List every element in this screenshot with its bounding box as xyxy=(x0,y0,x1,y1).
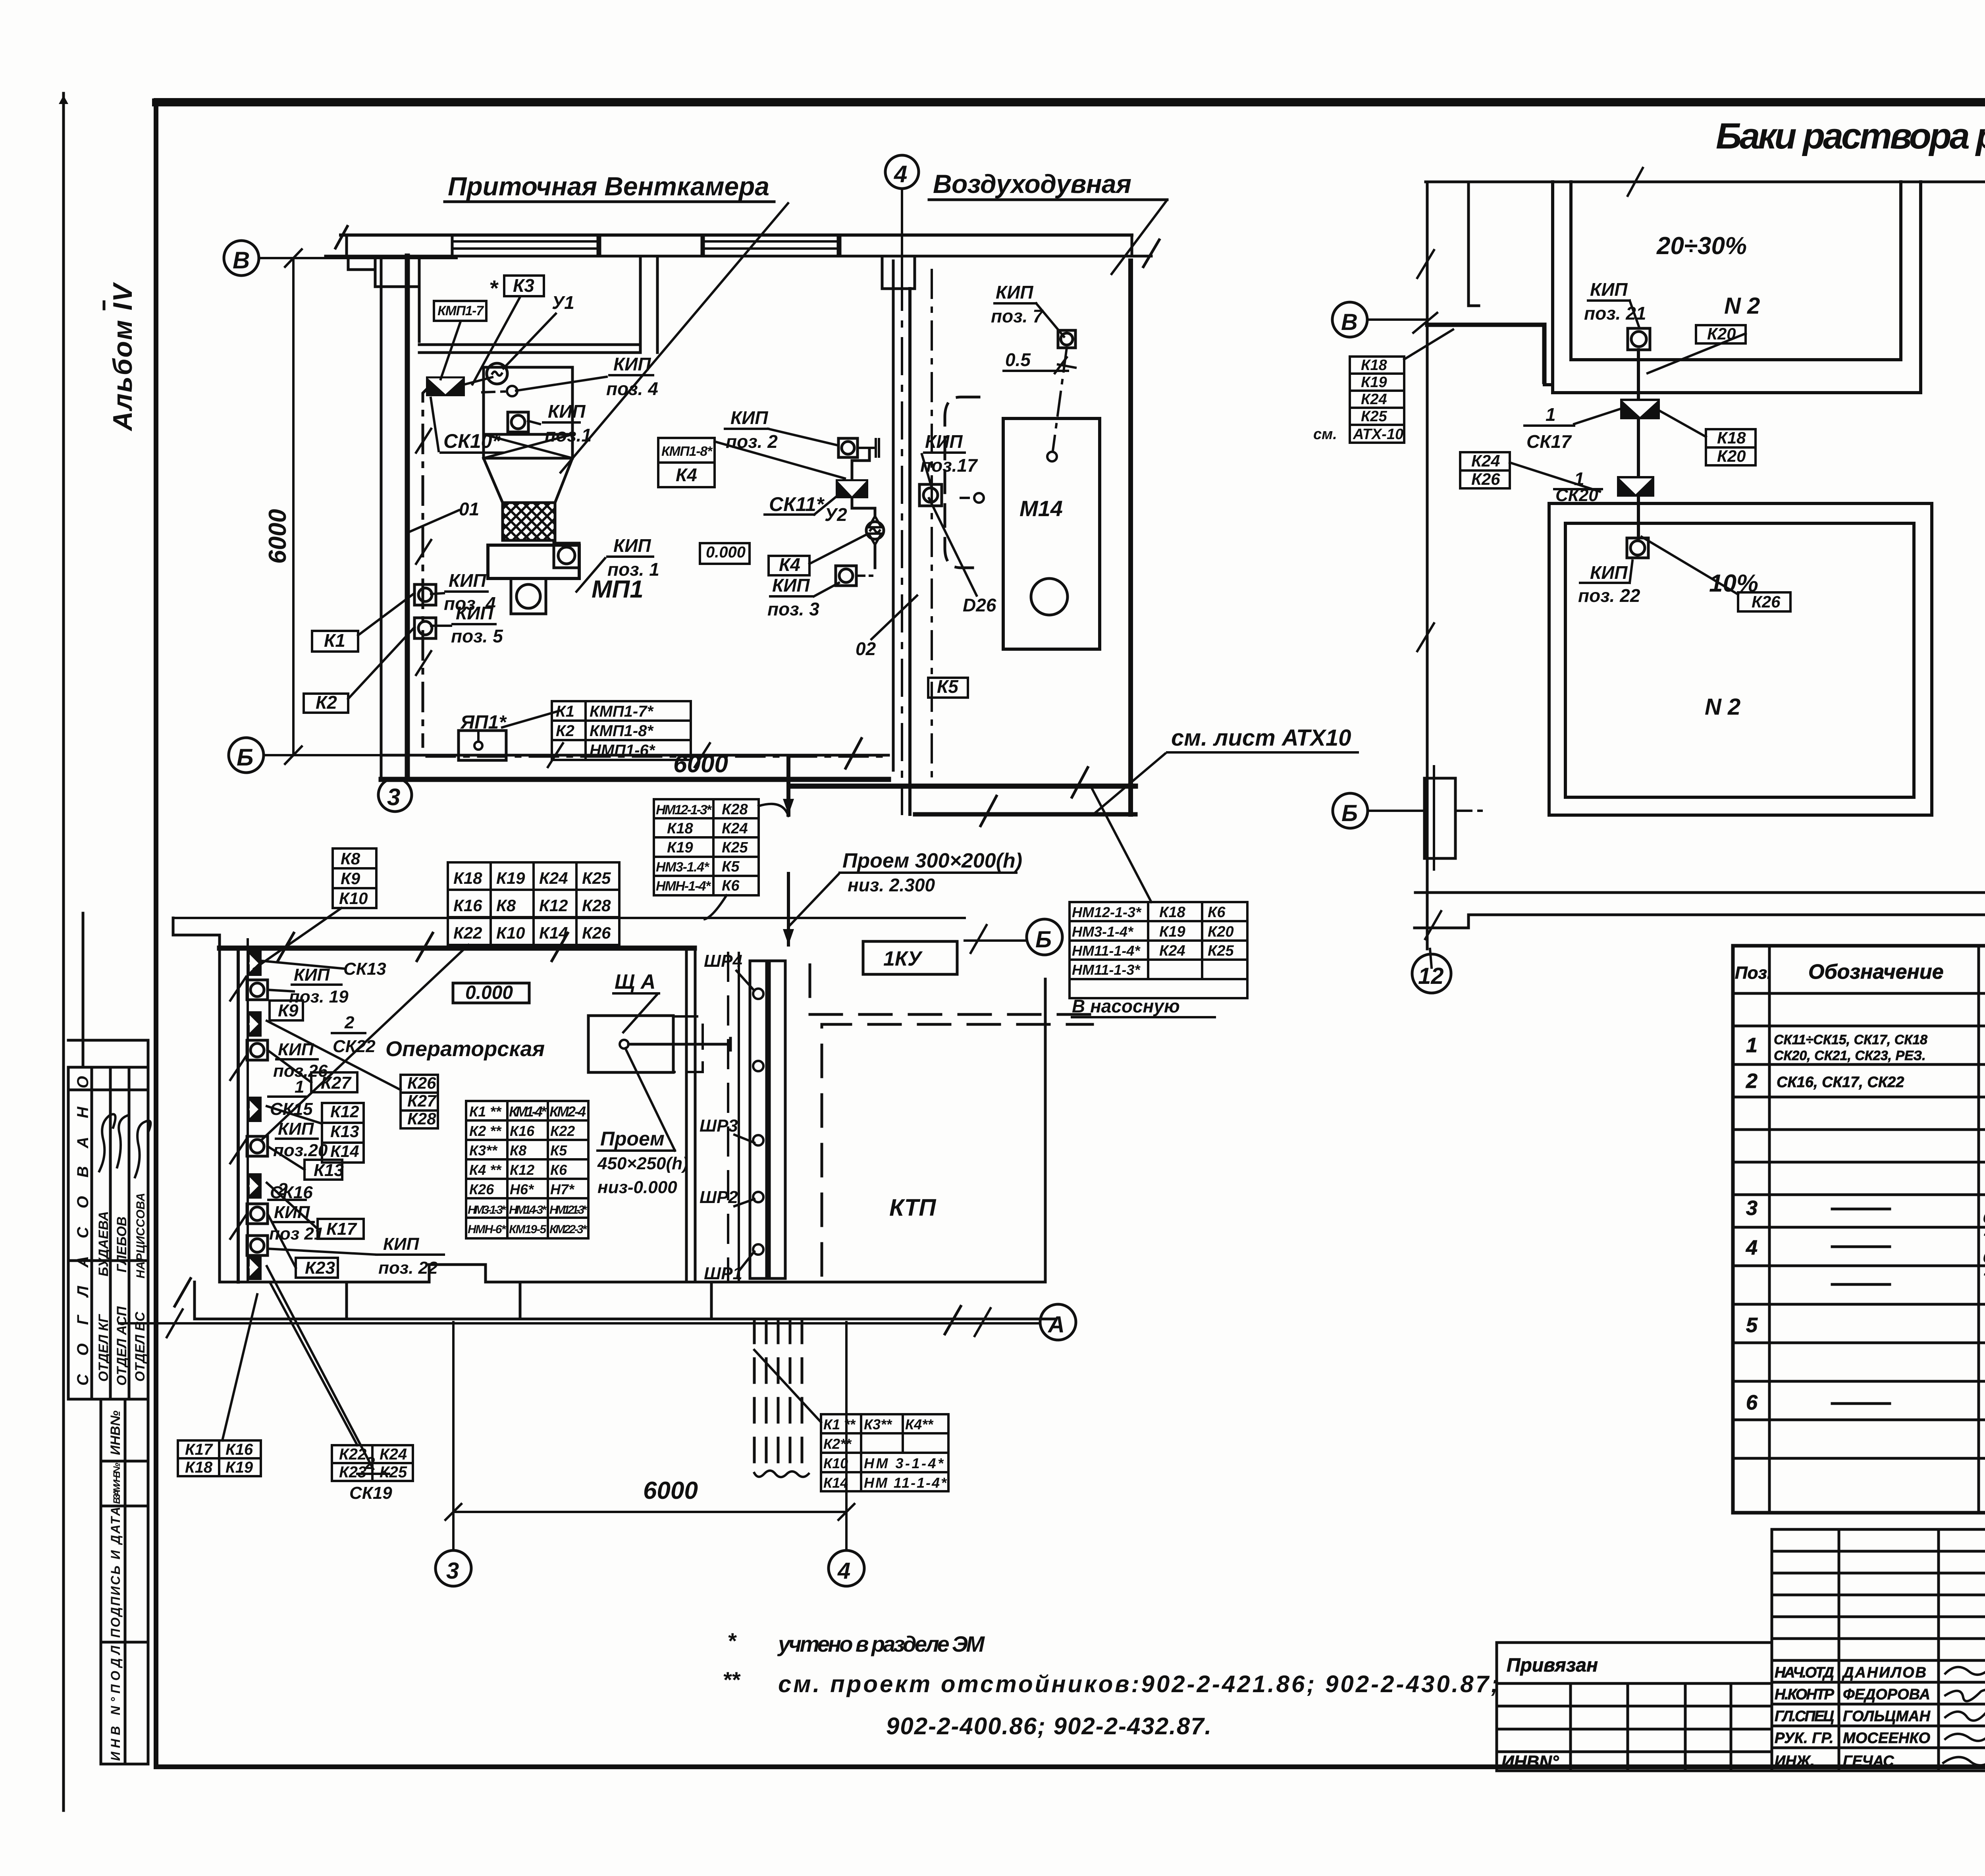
svg-text:М14: М14 xyxy=(1019,496,1063,521)
svg-text:поз. 2: поз. 2 xyxy=(726,431,778,452)
svg-text:ГЛЕБОВ: ГЛЕБОВ xyxy=(114,1217,129,1273)
svg-text:Баки раствора реагента: Баки раствора реагента xyxy=(1716,116,1985,156)
svg-text:6000: 6000 xyxy=(643,1477,698,1504)
svg-text:СК10*: СК10* xyxy=(443,430,501,452)
svg-text:0.000: 0.000 xyxy=(465,982,513,1003)
svg-text:К2: К2 xyxy=(556,722,574,740)
svg-text:К4**: К4** xyxy=(905,1416,934,1433)
svg-text:поз. 5: поз. 5 xyxy=(451,626,503,646)
svg-text:У1: У1 xyxy=(552,292,574,313)
svg-text:К24: К24 xyxy=(380,1446,407,1463)
svg-text:Щ А: Щ А xyxy=(615,970,655,993)
svg-text:КИП: КИП xyxy=(548,401,586,422)
svg-text:К19: К19 xyxy=(496,869,525,887)
svg-text:ИНВ N°ПОДЛ: ИНВ N°ПОДЛ xyxy=(108,1645,123,1761)
svg-text:К4: К4 xyxy=(779,554,800,575)
svg-text:ОТДЕЛ КГ: ОТДЕЛ КГ xyxy=(96,1313,111,1382)
svg-text:К2**: К2** xyxy=(823,1436,852,1452)
svg-text:К8: К8 xyxy=(510,1142,526,1159)
svg-text:К8: К8 xyxy=(496,896,516,915)
svg-text:поз. 1: поз. 1 xyxy=(607,559,659,580)
svg-text:3: 3 xyxy=(1746,1197,1758,1220)
svg-text:поз.17: поз.17 xyxy=(920,455,978,476)
svg-text:КИП: КИП xyxy=(613,354,651,374)
svg-text:ФЕДОРОВА: ФЕДОРОВА xyxy=(1843,1686,1930,1703)
svg-text:ГЛ.СПЕЦ: ГЛ.СПЕЦ xyxy=(1775,1708,1834,1725)
svg-text:НМ3-1.4*: НМ3-1.4* xyxy=(656,860,710,875)
svg-text:К9: К9 xyxy=(341,869,360,888)
svg-text:К6: К6 xyxy=(550,1162,567,1178)
svg-text:низ-0.000: низ-0.000 xyxy=(597,1178,677,1197)
svg-text:1КУ: 1КУ xyxy=(883,947,923,970)
svg-text:СК19: СК19 xyxy=(349,1483,392,1503)
svg-text:902-2-400.86; 902-2-432.87.: 902-2-400.86; 902-2-432.87. xyxy=(886,1713,1212,1739)
svg-text:К12: К12 xyxy=(330,1102,359,1121)
svg-text:К18: К18 xyxy=(1159,904,1185,921)
svg-text:ДАНИЛОВ: ДАНИЛОВ xyxy=(1842,1664,1926,1681)
svg-text:низ. 2.300: низ. 2.300 xyxy=(848,875,935,895)
svg-text:К25: К25 xyxy=(722,839,748,856)
svg-text:НМН-1-4*: НМН-1-4* xyxy=(656,879,711,894)
svg-text:К20: К20 xyxy=(1208,924,1234,940)
svg-text:Б: Б xyxy=(1035,927,1052,952)
svg-text:К18: К18 xyxy=(1717,428,1746,447)
svg-text:4: 4 xyxy=(894,161,907,187)
svg-text:450×250(h): 450×250(h) xyxy=(597,1154,688,1173)
svg-text:К3**: К3** xyxy=(864,1416,892,1433)
svg-text:2: 2 xyxy=(1746,1070,1758,1093)
svg-text:ИНВN°: ИНВN° xyxy=(1501,1752,1559,1772)
svg-text:*: * xyxy=(727,1628,737,1653)
svg-text:СК20, СК21, СК23, РЕЗ.: СК20, СК21, СК23, РЕЗ. xyxy=(1774,1048,1926,1063)
svg-text:К10: К10 xyxy=(823,1455,848,1471)
svg-text:К2: К2 xyxy=(316,692,337,713)
svg-text:ШР2: ШР2 xyxy=(700,1188,738,1207)
svg-text:К18: К18 xyxy=(1361,357,1387,374)
svg-text:БУДАЕВА: БУДАЕВА xyxy=(96,1211,111,1276)
svg-text:В насосную: В насосную xyxy=(1072,996,1180,1016)
svg-text:К24: К24 xyxy=(1471,451,1500,470)
svg-text:НМ 3-1-4*: НМ 3-1-4* xyxy=(864,1455,944,1471)
svg-text:поз. 7: поз. 7 xyxy=(991,306,1044,326)
svg-text:К28: К28 xyxy=(582,896,611,915)
svg-text:К25: К25 xyxy=(1208,943,1234,959)
svg-text:К9: К9 xyxy=(278,1001,299,1020)
svg-text:К5: К5 xyxy=(550,1142,567,1159)
svg-text:К25: К25 xyxy=(1361,408,1387,425)
svg-text:бесшовная: бесшовная xyxy=(1983,1249,1985,1266)
svg-text:КТП: КТП xyxy=(889,1194,937,1221)
svg-text:см.: см. xyxy=(1313,426,1337,443)
svg-text:К26: К26 xyxy=(1471,470,1500,488)
svg-text:К25: К25 xyxy=(582,869,611,887)
svg-text:К12: К12 xyxy=(539,896,568,915)
svg-text:КИП: КИП xyxy=(449,570,486,591)
svg-text:НМ14-3*: НМ14-3* xyxy=(509,1203,547,1217)
svg-text:1: 1 xyxy=(295,1077,304,1097)
svg-text:КИП: КИП xyxy=(1590,562,1628,583)
svg-text:КМ22-3*: КМ22-3* xyxy=(549,1223,587,1236)
svg-text:ШР1: ШР1 xyxy=(704,1264,742,1283)
svg-text:Б: Б xyxy=(1341,800,1358,826)
svg-text:К6: К6 xyxy=(722,877,740,894)
svg-text:К1: К1 xyxy=(556,703,574,720)
svg-text:К24: К24 xyxy=(722,820,748,837)
svg-text:Труба: Труба xyxy=(1983,1191,1985,1209)
svg-text:КМП1-7: КМП1-7 xyxy=(437,303,484,318)
svg-text:**: ** xyxy=(723,1667,741,1692)
svg-text:поз.1: поз.1 xyxy=(545,425,592,445)
svg-text:КМП1-8*: КМП1-8* xyxy=(661,444,713,459)
svg-text:4: 4 xyxy=(837,1558,850,1584)
svg-text:К4: К4 xyxy=(676,465,697,485)
svg-text:К2 **: К2 ** xyxy=(469,1123,502,1139)
svg-text:КИП: КИП xyxy=(1590,279,1628,300)
svg-text:N 2: N 2 xyxy=(1724,293,1760,319)
svg-text:12: 12 xyxy=(1418,963,1444,989)
svg-text:К18: К18 xyxy=(667,820,693,837)
svg-text:ГОЛЬЦМАН: ГОЛЬЦМАН xyxy=(1843,1708,1931,1725)
svg-text:К16: К16 xyxy=(225,1441,253,1458)
svg-text:К3: К3 xyxy=(513,275,534,296)
svg-text:МП1: МП1 xyxy=(592,576,644,603)
svg-text:Операторская: Операторская xyxy=(385,1037,545,1061)
svg-text:КМ19-5: КМ19-5 xyxy=(509,1223,547,1236)
svg-text:ШР3: ШР3 xyxy=(700,1116,738,1136)
svg-text:К26: К26 xyxy=(582,924,611,942)
svg-text:К26: К26 xyxy=(469,1181,494,1197)
svg-text:КИП: КИП xyxy=(383,1234,420,1254)
svg-text:К19: К19 xyxy=(1361,374,1387,391)
svg-text:КИП: КИП xyxy=(278,1119,314,1139)
svg-text:N 2: N 2 xyxy=(1705,694,1740,720)
svg-text:КИП: КИП xyxy=(613,535,651,556)
svg-text:поз. 3: поз. 3 xyxy=(767,599,819,619)
svg-text:ГЕЧАС: ГЕЧАС xyxy=(1843,1753,1894,1770)
svg-text:02: 02 xyxy=(856,638,876,659)
svg-text:АТХ-10: АТХ-10 xyxy=(1353,426,1403,443)
svg-text:Воздуходувная: Воздуходувная xyxy=(933,169,1131,199)
svg-text:К24: К24 xyxy=(539,869,568,887)
svg-text:К6: К6 xyxy=(1208,904,1226,921)
svg-text:К14: К14 xyxy=(539,924,568,942)
svg-text:К12: К12 xyxy=(510,1162,534,1178)
svg-text:К1: К1 xyxy=(324,630,345,651)
svg-text:К5: К5 xyxy=(937,676,959,697)
svg-text:бесшовная СТ3 ГОСТ8733-74 В20: бесшовная СТ3 ГОСТ8733-74 В20 М xyxy=(1983,1210,1985,1226)
svg-text:НМ3-1-4*: НМ3-1-4* xyxy=(1072,924,1134,940)
svg-text:ИНВ№: ИНВ№ xyxy=(108,1410,123,1455)
svg-text:К25: К25 xyxy=(380,1463,407,1481)
svg-text:Н.КОНТР: Н.КОНТР xyxy=(1775,1686,1835,1703)
svg-text:В: В xyxy=(1341,309,1358,335)
svg-text:К14: К14 xyxy=(823,1475,848,1491)
svg-text:У2: У2 xyxy=(825,504,847,525)
svg-text:К18: К18 xyxy=(185,1459,213,1476)
svg-text:Проем 300×200(h): Проем 300×200(h) xyxy=(842,849,1022,872)
svg-text:К5: К5 xyxy=(722,858,740,875)
svg-text:НМН-6*: НМН-6* xyxy=(468,1223,506,1236)
svg-text:К10: К10 xyxy=(339,889,368,908)
svg-text:КМП1-8*: КМП1-8* xyxy=(590,722,654,740)
svg-text:поз.20: поз.20 xyxy=(273,1141,328,1160)
svg-text:К27: К27 xyxy=(407,1091,437,1110)
svg-text:НАЧ.ОТД: НАЧ.ОТД xyxy=(1775,1664,1834,1681)
svg-text:поз. 22: поз. 22 xyxy=(1578,585,1640,606)
svg-text:МОСЕЕНКО: МОСЕЕНКО xyxy=(1843,1730,1930,1747)
svg-text:СК16, СК17, СК22: СК16, СК17, СК22 xyxy=(1777,1074,1904,1091)
svg-text:учтено в разделе ЭМ: учтено в разделе ЭМ xyxy=(777,1631,985,1656)
svg-text:КМ2-4: КМ2-4 xyxy=(549,1103,586,1120)
svg-text:К22: К22 xyxy=(550,1123,575,1139)
svg-text:5: 5 xyxy=(1746,1314,1758,1337)
svg-text:К23: К23 xyxy=(305,1258,335,1278)
svg-text:4: 4 xyxy=(1746,1236,1758,1259)
svg-text:В: В xyxy=(233,247,250,274)
svg-text:20÷30%: 20÷30% xyxy=(1656,232,1747,260)
svg-text:К22: К22 xyxy=(453,924,482,942)
svg-text:НМП1-6*: НМП1-6* xyxy=(590,742,656,759)
svg-text:К20: К20 xyxy=(1717,447,1746,465)
svg-text:К14: К14 xyxy=(330,1142,359,1161)
svg-text:К26: К26 xyxy=(407,1074,436,1092)
svg-text:1: 1 xyxy=(1746,1034,1758,1057)
svg-text:Привязан: Привязан xyxy=(1507,1655,1598,1676)
svg-text:1: 1 xyxy=(1546,404,1556,425)
svg-text:ВЗАМ ИНВ№: ВЗАМ ИНВ№ xyxy=(112,1463,122,1504)
svg-text:К19: К19 xyxy=(225,1459,253,1476)
svg-text:поз. 4: поз. 4 xyxy=(606,378,658,399)
svg-text:Проем: Проем xyxy=(600,1128,665,1150)
svg-text:К28: К28 xyxy=(407,1109,436,1128)
svg-text:К23: К23 xyxy=(339,1463,366,1481)
svg-text:А: А xyxy=(1047,1312,1065,1338)
svg-text:НМ12-1-3*: НМ12-1-3* xyxy=(656,802,712,817)
svg-text:Приточная Венткамера: Приточная Венткамера xyxy=(448,172,769,201)
svg-text:К17: К17 xyxy=(326,1219,358,1239)
svg-text:ПОДПИСЬ И ДАТА: ПОДПИСЬ И ДАТА xyxy=(108,1507,123,1638)
svg-text:К24: К24 xyxy=(1361,391,1387,408)
svg-text:К16: К16 xyxy=(510,1123,535,1139)
svg-text:6: 6 xyxy=(1746,1391,1758,1414)
svg-text:0.000: 0.000 xyxy=(706,544,746,561)
svg-text:К28: К28 xyxy=(722,801,748,818)
svg-text:*: * xyxy=(489,276,499,301)
svg-text:6000: 6000 xyxy=(673,750,728,778)
svg-text:КИП: КИП xyxy=(730,407,768,428)
svg-text:НАРЦИССОВА: НАРЦИССОВА xyxy=(134,1193,147,1278)
svg-text:К26: К26 xyxy=(1752,592,1781,611)
svg-text:Альбом IV: Альбом IV xyxy=(108,281,138,432)
svg-text:КИП: КИП xyxy=(456,603,493,623)
svg-text:Обозначение: Обозначение xyxy=(1808,960,1944,983)
svg-text:см. лист АТХ10: см. лист АТХ10 xyxy=(1171,725,1351,751)
svg-text:01: 01 xyxy=(459,499,479,519)
svg-text:ОТДЕЛ АСП: ОТДЕЛ АСП xyxy=(114,1306,129,1386)
svg-text:К19: К19 xyxy=(1159,924,1185,940)
svg-text:КМП1-7*: КМП1-7* xyxy=(590,703,654,720)
svg-text:Труба: Труба xyxy=(1983,1231,1985,1248)
svg-text:К19: К19 xyxy=(667,839,693,856)
svg-text:D26: D26 xyxy=(963,595,996,615)
svg-text:РУК. ГР.: РУК. ГР. xyxy=(1775,1730,1834,1747)
svg-text:Б: Б xyxy=(237,744,253,771)
svg-text:К17: К17 xyxy=(185,1441,213,1458)
svg-text:2: 2 xyxy=(344,1013,355,1032)
svg-text:КИП: КИП xyxy=(996,282,1033,303)
svg-text:НМ11-1-4*: НМ11-1-4* xyxy=(1072,943,1141,959)
svg-text:К16: К16 xyxy=(453,896,482,915)
svg-text:К22: К22 xyxy=(339,1446,366,1463)
svg-text:3: 3 xyxy=(387,784,400,810)
svg-text:НМ11-1-3*: НМ11-1-3* xyxy=(1072,962,1141,978)
svg-text:НМ121-3*: НМ121-3* xyxy=(549,1203,587,1217)
svg-text:ИНЖ.: ИНЖ. xyxy=(1775,1753,1815,1770)
svg-text:Н6*: Н6* xyxy=(510,1181,534,1197)
svg-text:СОГЛАСОВАНО: СОГЛАСОВАНО xyxy=(74,1076,92,1386)
svg-text:К10: К10 xyxy=(496,924,525,942)
svg-text:Труба Винипластовая: Труба Винипластовая xyxy=(1983,1271,1985,1288)
svg-text:6000: 6000 xyxy=(264,509,291,564)
svg-text:см. проект отстойников:902-2-: см. проект отстойников:902-2-421.86; 902… xyxy=(778,1671,1501,1697)
svg-text:поз. 22: поз. 22 xyxy=(378,1258,438,1278)
svg-text:К24: К24 xyxy=(1159,943,1185,959)
svg-text:3: 3 xyxy=(446,1558,459,1584)
svg-text:К27: К27 xyxy=(321,1073,352,1093)
svg-text:НМ 11-1-4*: НМ 11-1-4* xyxy=(864,1475,947,1491)
svg-text:К3**: К3** xyxy=(469,1142,498,1159)
svg-text:0.5: 0.5 xyxy=(1005,349,1031,370)
svg-text:КИП: КИП xyxy=(294,965,330,985)
svg-text:СК17: СК17 xyxy=(1526,431,1572,452)
svg-text:ШР4: ШР4 xyxy=(704,951,742,971)
svg-text:КИП: КИП xyxy=(772,575,810,596)
svg-text:К18: К18 xyxy=(453,869,482,887)
svg-text:СК11÷СК15, СК17, СК18: СК11÷СК15, СК17, СК18 xyxy=(1774,1032,1927,1047)
svg-text:К1 **: К1 ** xyxy=(823,1416,856,1433)
svg-text:НМ12-1-3*: НМ12-1-3* xyxy=(1072,904,1142,920)
svg-text:Поз.: Поз. xyxy=(1735,963,1772,983)
svg-text:СК13: СК13 xyxy=(343,959,386,979)
svg-text:Н7*: Н7* xyxy=(550,1181,575,1197)
svg-text:НМ3-1-3*: НМ3-1-3* xyxy=(468,1203,506,1217)
svg-text:КМ1-4*: КМ1-4* xyxy=(509,1103,547,1120)
svg-text:К4 **: К4 ** xyxy=(469,1162,502,1178)
svg-text:К8: К8 xyxy=(341,849,360,868)
svg-text:К1 **: К1 ** xyxy=(469,1103,502,1120)
svg-text:К13: К13 xyxy=(330,1122,359,1141)
